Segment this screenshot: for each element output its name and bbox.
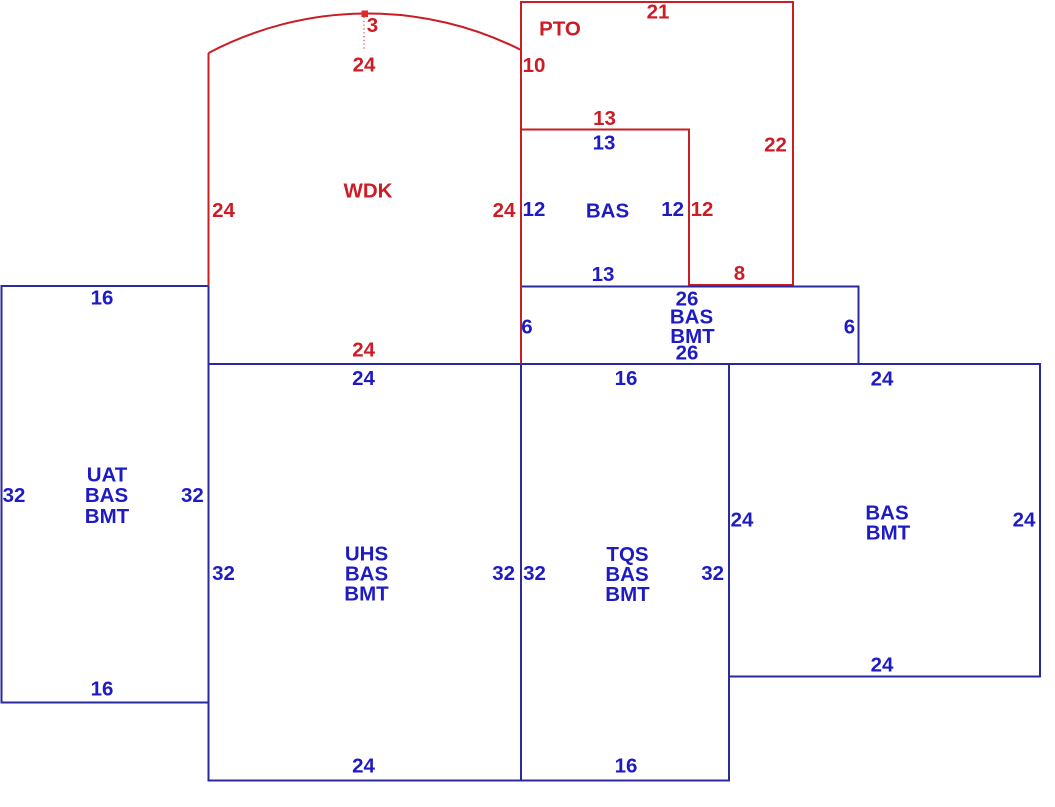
svg-text:BAS: BAS (586, 199, 629, 222)
svg-text:24: 24 (352, 338, 375, 361)
svg-text:24: 24 (871, 367, 894, 390)
svg-text:24: 24 (493, 199, 516, 222)
svg-text:22: 22 (764, 133, 787, 156)
svg-text:13: 13 (592, 263, 615, 286)
svg-text:BMT: BMT (866, 521, 911, 544)
svg-text:BAS: BAS (85, 484, 128, 507)
area UAT BAS BMT outline (2, 286, 209, 703)
svg-text:BMT: BMT (85, 505, 130, 528)
svg-text:26: 26 (676, 341, 699, 364)
svg-text:16: 16 (91, 677, 114, 700)
svg-text:10: 10 (523, 54, 546, 77)
svg-text:16: 16 (615, 754, 638, 777)
arc peak marker (362, 11, 369, 18)
svg-text:24: 24 (352, 367, 375, 390)
svg-text:BMT: BMT (344, 582, 389, 605)
svg-text:24: 24 (212, 199, 235, 222)
arc rise dotted line (363, 17, 365, 50)
svg-text:24: 24 (731, 508, 754, 531)
svg-text:32: 32 (181, 484, 204, 507)
svg-text:BMT: BMT (605, 583, 650, 606)
area BAS BMT right outline (729, 364, 1040, 677)
svg-text:13: 13 (593, 107, 616, 130)
svg-text:32: 32 (523, 562, 546, 585)
svg-text:12: 12 (523, 198, 546, 221)
svg-text:21: 21 (647, 0, 670, 23)
svg-text:WDK: WDK (344, 179, 393, 202)
svg-text:6: 6 (844, 315, 855, 338)
svg-text:24: 24 (352, 754, 375, 777)
area BAS BMT strip outline (521, 287, 859, 365)
svg-text:24: 24 (1013, 508, 1036, 531)
area TQS BAS BMT outline (521, 364, 729, 781)
svg-text:32: 32 (492, 562, 515, 585)
svg-text:24: 24 (353, 53, 376, 76)
svg-text:32: 32 (701, 562, 724, 585)
svg-text:8: 8 (734, 262, 745, 285)
svg-text:32: 32 (3, 484, 26, 507)
svg-text:12: 12 (661, 198, 684, 221)
svg-text:PTO: PTO (539, 17, 581, 40)
area PTO outline (521, 2, 793, 286)
svg-text:16: 16 (91, 287, 114, 310)
area WDK right edge (520, 50, 522, 364)
svg-text:13: 13 (593, 131, 616, 154)
area WDK left edge (208, 53, 210, 286)
area WDK top arc (209, 13, 522, 53)
svg-text:24: 24 (871, 653, 894, 676)
svg-text:6: 6 (521, 315, 532, 338)
svg-text:32: 32 (212, 562, 235, 585)
area UHS BAS BMT outline (209, 364, 522, 781)
svg-text:3: 3 (367, 14, 378, 37)
svg-text:UAT: UAT (87, 463, 128, 486)
svg-text:12: 12 (691, 198, 714, 221)
svg-text:16: 16 (615, 367, 638, 390)
area BAS (patio) outline (521, 130, 689, 287)
